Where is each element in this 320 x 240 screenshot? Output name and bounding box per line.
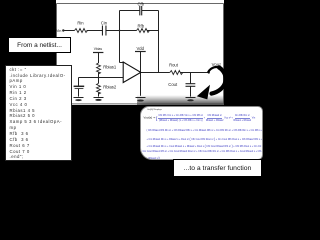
node 3 dot [119, 30, 121, 32]
svg-text:Vbias: Vbias [94, 47, 103, 51]
wire output [141, 72, 170, 74]
resistor Rbias1 [97, 63, 101, 74]
svg-text:Rout: Rout [169, 62, 179, 67]
wire Cfb top branch [120, 10, 159, 12]
wire [98, 93, 100, 97]
wire plus input from node5 [79, 77, 124, 79]
wire [181, 72, 209, 74]
wire feedback left vertical [119, 11, 121, 63]
source Vin lead [78, 78, 80, 86]
ground ellipses [95, 99, 102, 101]
wire from Vin node [63, 30, 74, 32]
capacitor Cfb [140, 6, 142, 15]
svg-text:Cout: Cout [168, 82, 178, 87]
svg-text:Cin: Cin [101, 21, 108, 26]
svg-text:Rfb: Rfb [138, 23, 145, 28]
netlist text box [5, 65, 72, 162]
node 5 dot [98, 77, 100, 79]
power Vbias bar [93, 52, 103, 54]
capacitor Cin [102, 26, 106, 36]
svg-text:Rbias1: Rbias1 [103, 64, 117, 69]
power Vdd vertical through op-amp [140, 52, 142, 96]
shadow of output box on schematic [137, 95, 224, 105]
schematic frame [57, 4, 224, 104]
svg-text:Vdd: Vdd [136, 46, 144, 51]
op-amp U1 triangle [123, 62, 141, 83]
node Vout dot [208, 71, 210, 73]
callout: to a transfer function [173, 159, 262, 177]
svg-text:Vin: Vin [56, 29, 61, 33]
wire minus input [120, 62, 124, 64]
source Vin plates [74, 85, 85, 87]
transfer-function output box [140, 106, 263, 160]
wire [98, 53, 100, 64]
resistor Rbias2 [97, 83, 101, 94]
svg-text:Rin: Rin [77, 21, 84, 26]
resistor Rout [170, 71, 183, 75]
wire feedback right vertical [158, 11, 160, 73]
arrow to transfer function [208, 67, 225, 94]
node 1 dot [62, 29, 64, 31]
svg-text:Rbias2: Rbias2 [103, 85, 117, 90]
ground cout bar [186, 97, 196, 99]
wire node3 rail [106, 30, 137, 32]
wire [87, 30, 103, 32]
circuit drawing [0, 0, 273, 185]
capacitor Cout plates [186, 83, 196, 85]
resistor Rin [75, 29, 88, 33]
capacitor Cout lead [190, 73, 192, 84]
ground vin bar [74, 97, 84, 99]
arrowhead [197, 85, 210, 100]
ground opamp bar [136, 97, 146, 99]
callout: From a netlist [8, 37, 71, 53]
wire [147, 30, 159, 32]
resistor Rfb [137, 29, 150, 33]
power Vdd bar [135, 51, 146, 53]
ground bias bar [94, 97, 104, 99]
schematic white panel [56, 0, 224, 105]
wire [98, 72, 100, 83]
svg-text:Cfb: Cfb [138, 2, 145, 7]
